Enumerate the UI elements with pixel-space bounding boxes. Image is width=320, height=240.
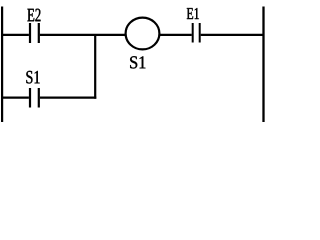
left power rail bbox=[1, 7, 3, 123]
contact S1 bbox=[30, 88, 39, 108]
right power rail bbox=[262, 7, 264, 123]
contact E2 bbox=[30, 23, 39, 43]
label E1 bbox=[187, 8, 199, 19]
label E2 bbox=[27, 9, 40, 22]
wire: left rail to contact S1 (bottom rung) bbox=[1, 96, 29, 98]
wire: contact S1 to junction bbox=[40, 96, 96, 98]
wire: contact E1 to right rail bbox=[201, 34, 264, 36]
wire: contact E2 to coil S1 (through junction) bbox=[40, 34, 126, 36]
coil S1 bbox=[126, 18, 160, 50]
junction: branch point at node between E2 and coil bbox=[94, 34, 96, 99]
label S1 (contact) bbox=[26, 71, 39, 84]
label S1 (coil) bbox=[130, 56, 145, 68]
wire: coil S1 to contact E1 bbox=[160, 34, 192, 36]
contact E1 bbox=[193, 23, 200, 43]
wire: left rail to contact E2 bbox=[1, 34, 29, 36]
